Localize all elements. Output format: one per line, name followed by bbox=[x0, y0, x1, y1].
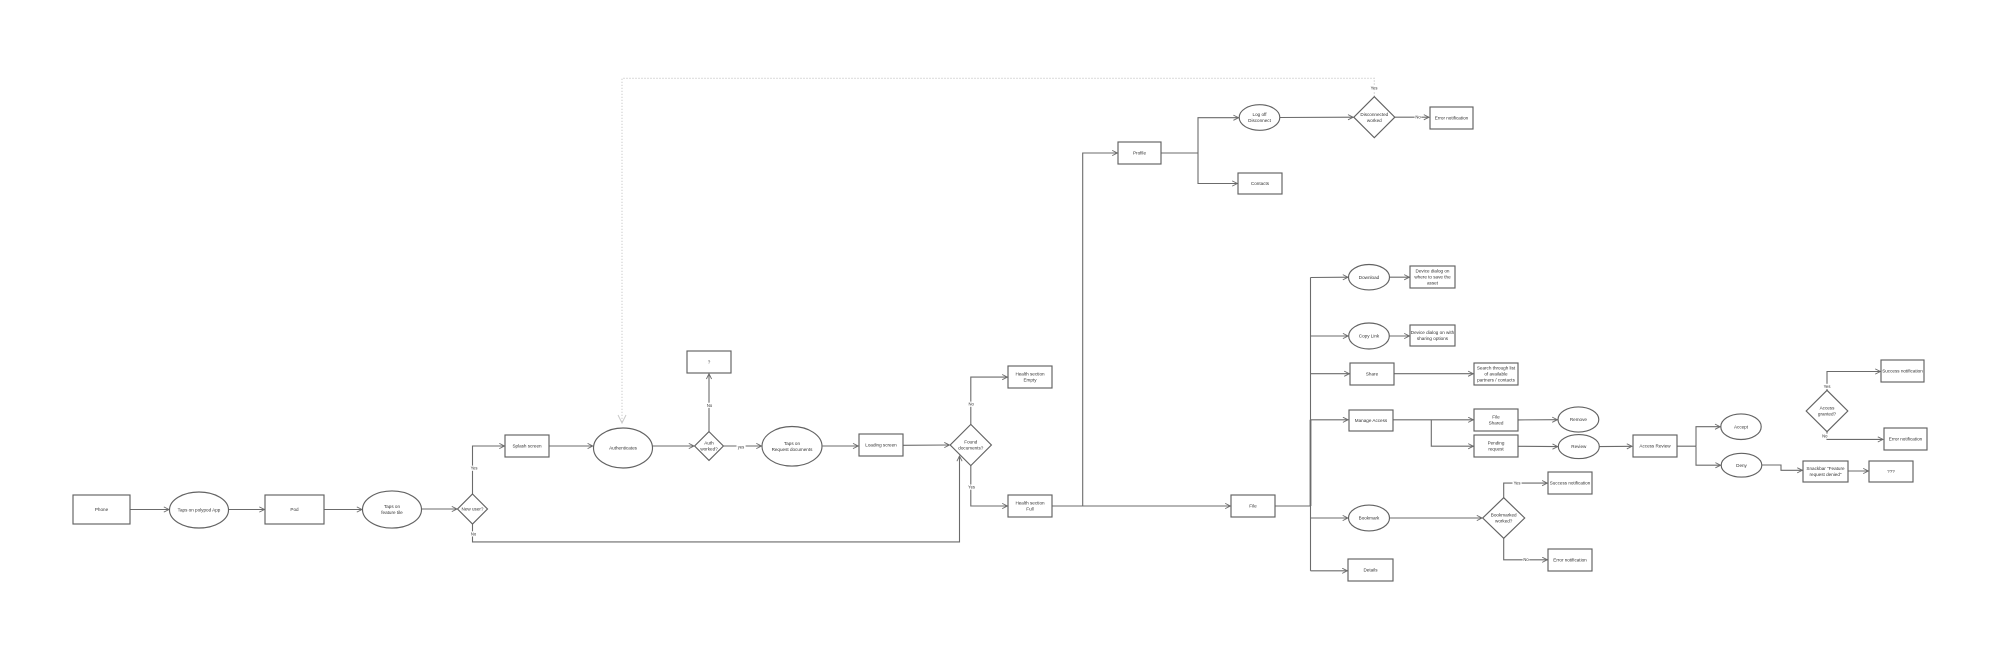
wire New-user Yes to Splash-screen bbox=[473, 446, 505, 494]
label Yes (Disconnected worked) bbox=[1370, 85, 1379, 90]
svg-text:worked?: worked? bbox=[700, 447, 718, 452]
svg-text:Accept: Accept bbox=[1734, 424, 1749, 429]
svg-text:Empty: Empty bbox=[1023, 378, 1037, 383]
process Error notification (disconnect) bbox=[1430, 107, 1473, 129]
process Profile bbox=[1118, 142, 1161, 164]
wire Deny to Snackbar bbox=[1762, 465, 1803, 470]
process File bbox=[1231, 495, 1275, 517]
svg-text:Remove: Remove bbox=[1570, 417, 1588, 422]
wire Taps-on-feature-tile to New-user bbox=[421, 508, 457, 510]
svg-text:Success notification: Success notification bbox=[1882, 369, 1923, 374]
action Taps on polypod App bbox=[170, 492, 229, 528]
process ??? bbox=[1869, 461, 1913, 482]
wire Bookmark to Bookmarked-worked bbox=[1390, 517, 1483, 519]
svg-text:New user?: New user? bbox=[462, 507, 484, 512]
wire Found-documents Yes to Health-section-Full bbox=[971, 466, 1008, 506]
wire Disconnected-worked Yes dotted feedback to Authenticates bbox=[622, 78, 1374, 423]
svg-text:No: No bbox=[1822, 434, 1828, 439]
wire junction up to Profile bbox=[1083, 153, 1118, 506]
svg-text:Search through list: Search through list bbox=[1477, 366, 1516, 371]
wire Bookmarked-worked No to Error-notification bbox=[1504, 538, 1548, 560]
svg-text:Bookmark: Bookmark bbox=[1359, 516, 1380, 521]
wire trunk to Share bbox=[1311, 373, 1350, 375]
action Download bbox=[1349, 265, 1390, 290]
svg-text:Loading screen: Loading screen bbox=[865, 443, 897, 448]
svg-text:Snackbar "Feature: Snackbar "Feature bbox=[1806, 466, 1845, 471]
wire trunk to Bookmark bbox=[1311, 517, 1348, 519]
svg-text:Access Review: Access Review bbox=[1639, 444, 1671, 449]
process Device dialog on with sharing options bbox=[1410, 325, 1455, 346]
label No (Bookmarked worked) bbox=[1523, 557, 1530, 562]
svg-text:sharing options: sharing options bbox=[1417, 336, 1449, 341]
svg-text:Taps on: Taps on bbox=[384, 504, 401, 509]
wire split to Deny bbox=[1696, 446, 1721, 465]
wire Pod to Taps-on-feature-tile bbox=[324, 509, 362, 511]
wire trunk to Copy-Link bbox=[1311, 335, 1349, 337]
svg-text:feature tile: feature tile bbox=[381, 510, 403, 515]
process Access Review bbox=[1633, 435, 1677, 457]
wire Access-Review to split point bbox=[1677, 445, 1696, 447]
wire Pending-request to Review bbox=[1518, 445, 1558, 447]
action Taps on Request documents bbox=[762, 427, 822, 467]
label Yes (New user) bbox=[470, 466, 479, 471]
process Health section Empty bbox=[1008, 366, 1052, 388]
svg-text:Pod: Pod bbox=[290, 507, 299, 512]
label No (Access granted) bbox=[1821, 434, 1828, 439]
svg-text:Contacts: Contacts bbox=[1251, 181, 1270, 186]
wire trunk vertical bbox=[1310, 278, 1312, 571]
process Error notification (access) bbox=[1884, 428, 1927, 450]
svg-text:No: No bbox=[1523, 557, 1529, 562]
svg-text:asset: asset bbox=[1427, 281, 1439, 286]
label Yes (Bookmarked worked) bbox=[1513, 480, 1522, 485]
decision Bookmarked worked? bbox=[1483, 498, 1525, 539]
process Success notification (bookmark) bbox=[1548, 472, 1592, 494]
decision Access granted? bbox=[1806, 390, 1848, 431]
svg-text:No: No bbox=[969, 402, 975, 407]
svg-text:Details: Details bbox=[1363, 568, 1378, 573]
wire Loading-screen to Found-documents bbox=[903, 444, 950, 446]
svg-text:Profile: Profile bbox=[1133, 151, 1146, 156]
wire Taps-on-Request-documents to Loading-screen bbox=[823, 445, 859, 447]
wire trunk to Details bbox=[1311, 570, 1348, 572]
label Yes (Found documents) bbox=[967, 485, 976, 490]
wire Phone to Taps-on-polypod-App bbox=[130, 509, 169, 511]
wire New-user No loop to Found-documents bbox=[473, 456, 960, 542]
process Details bbox=[1348, 559, 1393, 581]
wire Log-off-Disconnect to Disconnected-worked bbox=[1280, 116, 1353, 118]
svg-text:Log off: Log off bbox=[1253, 112, 1268, 117]
process Phone bbox=[73, 495, 130, 524]
wire Manage-Access split to Pending-request bbox=[1431, 420, 1473, 446]
svg-text:Error notification: Error notification bbox=[1889, 437, 1923, 442]
action Deny bbox=[1721, 453, 1762, 477]
svg-text:Yes: Yes bbox=[471, 466, 478, 471]
wire Review to Access-Review bbox=[1599, 445, 1632, 447]
wire Share to Search-through-list bbox=[1394, 373, 1473, 375]
svg-text:Request documents: Request documents bbox=[772, 447, 814, 452]
svg-text:Splash screen: Splash screen bbox=[512, 444, 542, 449]
svg-text:Error notification: Error notification bbox=[1435, 116, 1469, 121]
svg-text:Deny: Deny bbox=[1736, 463, 1747, 468]
process Success notification (access) bbox=[1881, 360, 1924, 382]
svg-text:Disconnect: Disconnect bbox=[1248, 118, 1271, 123]
svg-text:request: request bbox=[1488, 447, 1504, 452]
label No (Found documents) bbox=[968, 402, 975, 407]
svg-text:granted?: granted? bbox=[1818, 412, 1837, 417]
process Pod bbox=[265, 495, 324, 524]
process Device dialog on where to save the asset bbox=[1410, 266, 1455, 288]
svg-text:Disconnected: Disconnected bbox=[1360, 112, 1388, 117]
wire split to Log-off-Disconnect bbox=[1198, 118, 1239, 153]
svg-text:Yes: Yes bbox=[1514, 480, 1521, 485]
decision New user? bbox=[458, 494, 488, 524]
decision Auth worked? bbox=[695, 432, 724, 461]
wire Found-documents No to Health-section-Empty bbox=[971, 377, 1008, 424]
svg-text:Taps on: Taps on bbox=[784, 441, 801, 446]
wire trunk to Download bbox=[1311, 276, 1349, 278]
wire Auth-worked yes to Taps-on-Request-documents bbox=[723, 445, 761, 447]
svg-text:worked?: worked? bbox=[1495, 519, 1513, 524]
svg-text:Yes: Yes bbox=[968, 485, 975, 490]
wire Download to Device-dialog-save bbox=[1390, 276, 1410, 278]
action Accept bbox=[1721, 414, 1761, 440]
svg-text:yes: yes bbox=[738, 444, 745, 449]
process Snackbar Feature request denied bbox=[1803, 461, 1848, 482]
svg-text:of available: of available bbox=[1484, 372, 1508, 377]
action Remove bbox=[1558, 407, 1599, 432]
wire trunk overlap thick bbox=[1310, 420, 1312, 506]
svg-text:Found: Found bbox=[964, 440, 977, 445]
svg-text:Health section: Health section bbox=[1015, 501, 1045, 506]
svg-text:?: ? bbox=[708, 360, 711, 365]
wire Health-section-Full to File bbox=[1052, 505, 1230, 507]
action Bookmark bbox=[1349, 505, 1390, 531]
process Splash screen bbox=[505, 435, 549, 457]
action Taps on feature tile bbox=[363, 491, 422, 528]
svg-text:documents?: documents? bbox=[958, 446, 983, 451]
svg-text:No: No bbox=[707, 403, 713, 408]
wire split to Contacts bbox=[1198, 153, 1237, 184]
action Review bbox=[1558, 435, 1599, 459]
label yes (Auth worked) bbox=[737, 444, 746, 449]
svg-text:Error notification: Error notification bbox=[1553, 558, 1587, 563]
label No (Disconnected worked) bbox=[1415, 115, 1422, 120]
svg-text:Copy Link: Copy Link bbox=[1359, 334, 1380, 339]
svg-text:Download: Download bbox=[1359, 275, 1380, 280]
svg-text:Authenticates: Authenticates bbox=[609, 446, 638, 451]
action Authenticates bbox=[594, 428, 653, 468]
svg-text:Bookmarked: Bookmarked bbox=[1491, 513, 1517, 518]
process Loading screen bbox=[859, 434, 903, 456]
wire split to Accept bbox=[1696, 427, 1720, 447]
wire trunk to Manage-Access bbox=[1311, 419, 1349, 421]
svg-text:Shared: Shared bbox=[1489, 421, 1504, 426]
wire Bookmarked-worked Yes to Success-notification bbox=[1504, 483, 1548, 498]
label No (New user) bbox=[470, 531, 477, 536]
decision Found documents? bbox=[950, 424, 991, 465]
svg-text:File: File bbox=[1249, 504, 1257, 509]
label Yes (Access granted) bbox=[1823, 384, 1832, 389]
wire Copy-Link to Device-dialog-sharing bbox=[1390, 335, 1410, 337]
wire Access-granted Yes to Success-notification bbox=[1827, 372, 1880, 391]
svg-text:worked: worked bbox=[1367, 118, 1382, 123]
process Error notification (bookmark) bbox=[1548, 549, 1592, 571]
wire Access-granted No to Error-notification bbox=[1827, 432, 1883, 440]
svg-text:Yes: Yes bbox=[1371, 85, 1378, 90]
wire Taps-on-polypod-App to Pod bbox=[229, 509, 265, 511]
svg-text:Share: Share bbox=[1366, 372, 1379, 377]
svg-text:Access: Access bbox=[1820, 406, 1836, 411]
svg-text:Device dialog on: Device dialog on bbox=[1416, 269, 1450, 274]
process Manage Access bbox=[1349, 410, 1393, 431]
action Log off Disconnect bbox=[1239, 105, 1280, 131]
svg-text:Success notification: Success notification bbox=[1550, 481, 1591, 486]
svg-text:where to save the: where to save the bbox=[1414, 275, 1451, 280]
process File Shared bbox=[1474, 409, 1518, 431]
svg-text:File: File bbox=[1492, 415, 1500, 420]
wire File to trunk bbox=[1275, 505, 1311, 507]
svg-text:Taps on polypod App: Taps on polypod App bbox=[178, 508, 221, 513]
wire Auth-worked No to ?-box bbox=[708, 374, 710, 432]
svg-text:partners / contacts: partners / contacts bbox=[1477, 378, 1515, 383]
wire Splash-screen to Authenticates bbox=[549, 445, 593, 447]
svg-text:Yes: Yes bbox=[1824, 384, 1831, 389]
svg-text:Auth: Auth bbox=[704, 441, 714, 446]
svg-text:Review: Review bbox=[1571, 444, 1587, 449]
svg-text:???: ??? bbox=[1887, 469, 1895, 474]
wire Disconnected-worked No to Error-notification bbox=[1395, 116, 1429, 118]
action Copy Link bbox=[1349, 323, 1390, 349]
wire Manage-Access to File-Shared bbox=[1393, 419, 1473, 421]
wire Snackbar to ???-box bbox=[1848, 470, 1868, 472]
svg-text:request denied": request denied" bbox=[1809, 472, 1841, 477]
svg-text:Manage Access: Manage Access bbox=[1355, 418, 1388, 423]
svg-text:Device dialog on with: Device dialog on with bbox=[1411, 330, 1455, 335]
process ? bbox=[687, 351, 731, 373]
wire Authenticates to Auth-worked bbox=[653, 445, 695, 447]
process Share bbox=[1350, 363, 1394, 385]
svg-text:Full: Full bbox=[1026, 507, 1033, 512]
wire Profile to split point bbox=[1161, 152, 1198, 154]
svg-text:No: No bbox=[1415, 115, 1421, 120]
svg-text:Pending: Pending bbox=[1488, 441, 1505, 446]
wire File-Shared to Remove bbox=[1518, 419, 1557, 421]
svg-text:No: No bbox=[471, 531, 477, 536]
process Contacts bbox=[1238, 173, 1282, 194]
label No (Auth worked) bbox=[706, 403, 713, 408]
decision Disconnected worked bbox=[1354, 97, 1395, 138]
process Search through list of available partners / contacts bbox=[1474, 363, 1518, 385]
svg-text:Health section: Health section bbox=[1015, 372, 1045, 377]
process Pending request bbox=[1474, 435, 1518, 457]
process Health section Full bbox=[1008, 495, 1052, 517]
svg-text:Phone: Phone bbox=[95, 507, 109, 512]
